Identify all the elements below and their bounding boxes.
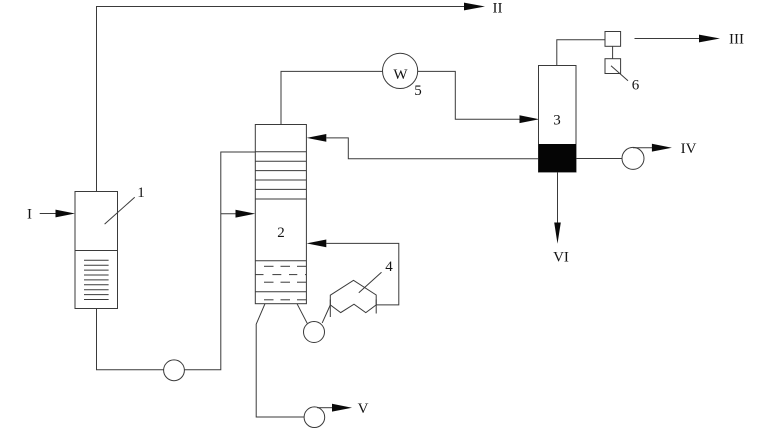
svg-text:2: 2 — [277, 225, 285, 241]
wire stream I inlet line — [40, 213, 58, 215]
node II arrowhead — [464, 3, 485, 11]
wire vessel 1 bottom to pump P1 to column feed — [97, 152, 256, 370]
wire column 2 bottoms to reboiler pump P2 — [297, 304, 307, 324]
vessel S3 black section — [539, 144, 577, 172]
heat exchanger E4 left tick — [329, 300, 331, 318]
trap 6 lower box — [605, 59, 621, 74]
svg-text:II: II — [493, 1, 503, 17]
pump P3 circle — [304, 407, 325, 428]
pump P2 circle — [304, 322, 325, 343]
vessel U1 body — [75, 192, 118, 309]
svg-text:I: I — [27, 207, 32, 223]
svg-text:3: 3 — [553, 113, 561, 129]
wire vessel 3 top to trap 6 — [557, 40, 605, 66]
node arrowhead reflux into column 2 top — [307, 134, 327, 142]
wire feed arrow branch — [221, 213, 237, 215]
label 1 leader line — [105, 197, 135, 224]
meter W5 circle — [383, 53, 418, 88]
wire trap connector — [612, 46, 614, 58]
node return arrowhead into column 2 — [307, 240, 327, 248]
wire pump P4 outlet — [633, 147, 653, 149]
column T2 liquid dashes row 3 — [264, 281, 306, 283]
wire vessel 3 side to pump P4 — [576, 158, 622, 160]
column T2 body — [255, 125, 306, 304]
label 4 leader line — [359, 272, 382, 293]
label 6 leader line — [611, 66, 628, 81]
svg-text:5: 5 — [414, 83, 422, 99]
wire pump P3 outlet — [317, 407, 333, 409]
heat exchanger E4 body — [330, 280, 376, 312]
column T2 liquid dashes row 4 — [264, 299, 306, 301]
node I arrowhead into vessel 1 — [56, 210, 76, 218]
vessel U1 divider — [75, 250, 118, 252]
column T2 liquid dashes row 2 — [255, 274, 306, 276]
svg-text:4: 4 — [385, 259, 393, 275]
svg-text:III: III — [729, 32, 744, 48]
svg-text:1: 1 — [137, 185, 145, 201]
wire column 2 bottoms to pump P3 (V outlet) — [256, 304, 304, 417]
trap 6 upper box — [605, 32, 621, 47]
pump P1 circle — [164, 360, 185, 381]
heat exchanger E4 right tick — [375, 300, 377, 314]
node V arrowhead — [332, 404, 352, 412]
column T2 liquid dashes row 1 — [264, 265, 306, 267]
node arrowhead into vessel 3 — [520, 115, 540, 123]
vessel U1 hatch lines — [84, 260, 109, 299]
svg-text:V: V — [358, 401, 369, 417]
wire column overhead to meter W — [281, 71, 383, 124]
wire vessel 3 bottom VI line — [557, 172, 559, 224]
wire reflux line from vessel 3 bottoms — [326, 138, 538, 159]
vessel S3 body — [539, 66, 577, 173]
wire stream II pipe from vessel 1 top — [97, 7, 467, 192]
svg-text:IV: IV — [681, 141, 697, 157]
wire pump P2 to exchanger 4 — [322, 305, 330, 323]
wire exchanger 4 return to column 2 — [326, 243, 399, 305]
node IV arrowhead — [652, 144, 672, 152]
node VI arrowhead — [554, 223, 561, 244]
svg-text:VI: VI — [553, 250, 569, 266]
column T2 liquid section solid lines — [255, 260, 306, 262]
node feed arrowhead into column 2 — [236, 210, 256, 218]
node III arrowhead — [699, 35, 720, 43]
svg-text:W: W — [393, 67, 408, 83]
column T2 tray lines — [255, 152, 306, 199]
wire stream III line — [635, 38, 701, 40]
pump P4 circle — [622, 147, 644, 169]
wire meter W to vessel 3 — [418, 71, 521, 119]
svg-text:6: 6 — [632, 77, 640, 93]
